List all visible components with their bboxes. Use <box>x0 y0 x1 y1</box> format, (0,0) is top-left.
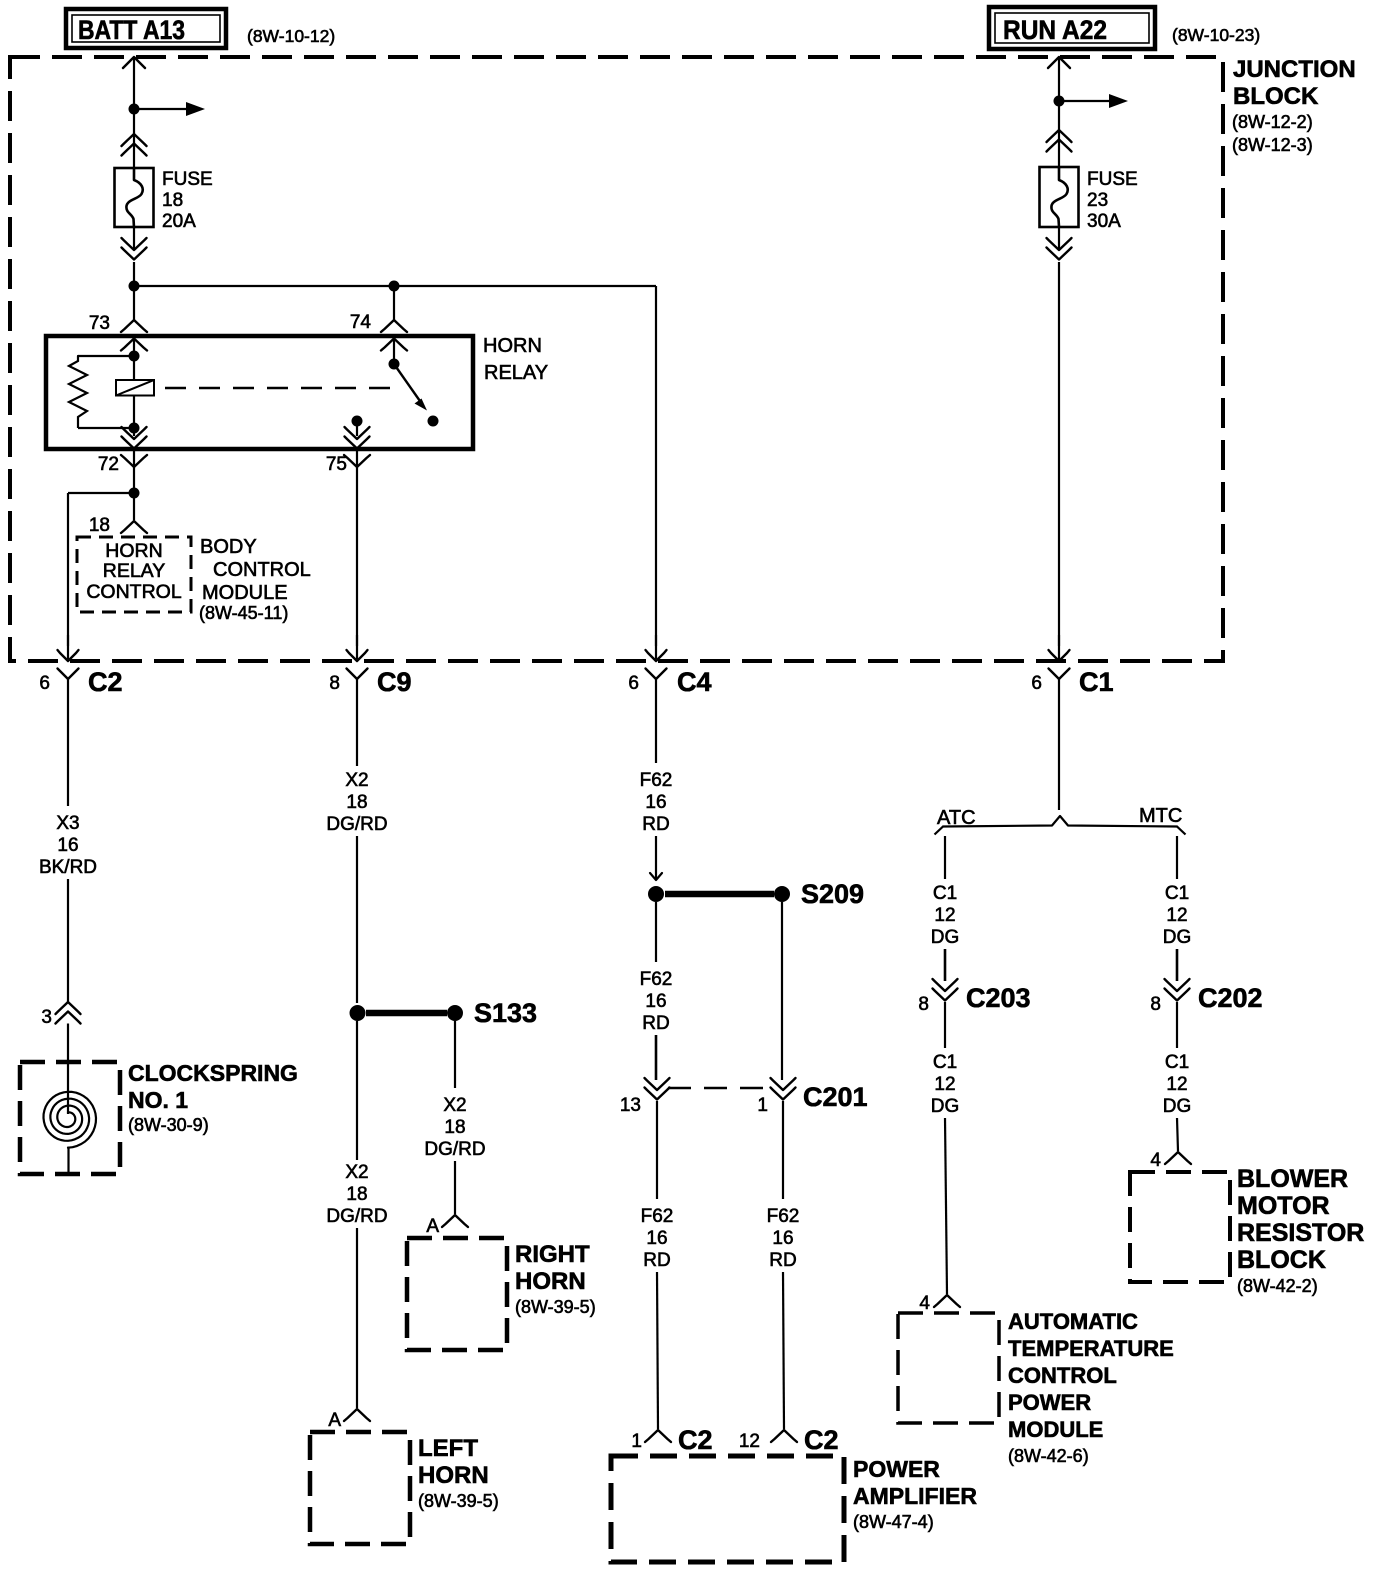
wire C201 pin1 down <box>782 1101 784 1199</box>
svg-text:1: 1 <box>631 1431 642 1452</box>
svg-text:20A: 20A <box>162 211 196 232</box>
wire S133 to label X2 (left horn run) <box>356 1021 358 1160</box>
wire S209 right leg down <box>781 902 783 1080</box>
svg-text:8: 8 <box>918 994 929 1015</box>
svg-text:75: 75 <box>326 454 347 475</box>
connector C2 pin 6 <box>67 635 69 659</box>
svg-text:BODY: BODY <box>200 536 257 558</box>
svg-text:HORN: HORN <box>418 1462 489 1489</box>
wire label to left horn pin A <box>356 1228 358 1408</box>
svg-text:12: 12 <box>934 1074 955 1095</box>
wire batt feed into junction block <box>133 57 135 169</box>
fuse 18 box <box>115 168 154 227</box>
svg-text:X2: X2 <box>345 770 368 791</box>
svg-text:C1: C1 <box>1165 883 1189 904</box>
connector C203 chevrons <box>933 979 958 991</box>
svg-text:X3: X3 <box>56 813 79 834</box>
connector chevrons relay pin 72 exit <box>122 427 147 439</box>
wire coil bottom to pin 72 <box>133 428 135 436</box>
svg-text:BLOCK: BLOCK <box>1237 1246 1326 1274</box>
svg-text:BK/RD: BK/RD <box>39 857 97 878</box>
svg-text:C1: C1 <box>1079 667 1114 697</box>
wire S209 left leg down <box>655 902 657 962</box>
svg-text:CONTROL: CONTROL <box>1008 1363 1117 1388</box>
svg-text:(8W-42-2): (8W-42-2) <box>1237 1276 1318 1296</box>
wire pin 72 to pin 18 <box>133 493 135 520</box>
svg-text:8: 8 <box>1150 994 1161 1015</box>
arrowhead into S209 <box>650 873 662 880</box>
svg-text:3: 3 <box>41 1007 52 1028</box>
node run feed tap <box>1054 96 1065 107</box>
wire C203 down <box>944 1002 946 1048</box>
wire clockspring exit <box>67 1147 69 1175</box>
wire relay coil bottom <box>133 396 135 429</box>
relay switch arm <box>394 364 421 403</box>
svg-text:DG/RD: DG/RD <box>424 1139 485 1160</box>
connector C202 chevrons <box>1165 979 1190 991</box>
connector chevrons below fuse 18 <box>122 238 147 250</box>
svg-text:18: 18 <box>444 1117 465 1138</box>
power amplifier box (dashed) <box>611 1456 844 1562</box>
wire MTC leg upper <box>1176 836 1178 879</box>
svg-text:F62: F62 <box>641 1206 674 1227</box>
svg-text:16: 16 <box>57 835 78 856</box>
wire pin 72 down <box>133 449 135 493</box>
connector chevrons relay pin 75 exit <box>345 427 370 439</box>
svg-text:(8W-47-4): (8W-47-4) <box>853 1512 934 1532</box>
svg-text:(8W-12-2): (8W-12-2) <box>1232 112 1313 132</box>
wire label to splice S209 <box>655 836 657 879</box>
svg-text:C202: C202 <box>1198 983 1263 1013</box>
node relay switch contact <box>428 416 439 427</box>
svg-text:4: 4 <box>919 1293 930 1314</box>
svg-text:HORN: HORN <box>483 335 542 357</box>
svg-text:73: 73 <box>89 313 110 334</box>
connector C9 pin 8 <box>356 635 358 659</box>
wire C201 pin13 down <box>656 1101 658 1199</box>
wire bus horizontal to C4 drop <box>134 285 656 287</box>
harness split bracket ATC/MTC <box>943 816 1177 827</box>
wire bcm branch to C2 <box>68 492 134 494</box>
svg-text:X2: X2 <box>443 1095 466 1116</box>
wire to blower resistor pin 4 <box>1177 1118 1178 1151</box>
svg-text:X2: X2 <box>345 1162 368 1183</box>
wire C2 to label X3 <box>67 685 69 806</box>
horn relay control box (dashed) <box>77 537 191 612</box>
svg-text:POWER: POWER <box>853 1456 940 1482</box>
svg-text:18: 18 <box>162 190 183 211</box>
svg-text:MODULE: MODULE <box>1008 1417 1103 1442</box>
wire label to right horn pin A <box>454 1161 456 1214</box>
svg-text:CONTROL: CONTROL <box>86 581 181 603</box>
wire label to pin 3 <box>67 879 69 1003</box>
svg-text:RD: RD <box>643 1250 670 1271</box>
svg-text:74: 74 <box>350 312 372 333</box>
power feed box BATT A13 <box>66 9 226 48</box>
wire ATC leg upper <box>944 836 946 879</box>
svg-text:NO. 1: NO. 1 <box>128 1087 188 1113</box>
ATC power module box (dashed) <box>898 1313 999 1423</box>
svg-text:S209: S209 <box>801 879 864 909</box>
wire pin 74 into relay <box>393 286 395 320</box>
svg-text:TEMPERATURE: TEMPERATURE <box>1008 1336 1174 1361</box>
svg-text:RESISTOR: RESISTOR <box>1237 1219 1364 1247</box>
svg-text:C2: C2 <box>804 1425 839 1455</box>
svg-text:FUSE: FUSE <box>162 169 213 190</box>
svg-text:6: 6 <box>39 673 50 694</box>
wire to amp pin 1 <box>657 1272 658 1429</box>
svg-text:C1: C1 <box>1165 1052 1189 1073</box>
wire to C202 <box>1176 949 1179 981</box>
svg-text:JUNCTION: JUNCTION <box>1233 56 1356 83</box>
svg-text:6: 6 <box>1031 673 1042 694</box>
wire fuse to bus <box>133 228 135 251</box>
connector chevrons run feed <box>1047 130 1072 142</box>
wire label to splice S133 <box>356 836 358 1003</box>
arrowhead up to RUN A22 <box>1048 57 1070 68</box>
svg-text:16: 16 <box>772 1228 793 1249</box>
svg-text:18: 18 <box>89 515 110 536</box>
svg-text:(8W-42-6): (8W-42-6) <box>1008 1446 1089 1466</box>
right horn box (dashed) <box>407 1238 507 1350</box>
svg-text:12: 12 <box>934 905 955 926</box>
pin 74 chevron inside relay <box>381 339 407 351</box>
clockspring no.1 box (dashed) <box>20 1062 120 1174</box>
svg-text:A: A <box>426 1216 439 1237</box>
wire bus to horn relay pin 73 <box>133 286 135 320</box>
svg-text:BLOCK: BLOCK <box>1233 83 1319 110</box>
node relay coil bottom <box>129 423 140 434</box>
splice S209 <box>648 886 664 902</box>
arrow other-circuits right (run) <box>1059 100 1110 102</box>
svg-text:72: 72 <box>98 454 119 475</box>
wire C202 down <box>1176 1002 1178 1048</box>
fuse 18 element <box>126 168 142 228</box>
wire common contact to pin 75 <box>356 421 358 436</box>
connector C4 pin 6 <box>655 635 657 659</box>
splice S133 <box>350 1005 366 1021</box>
node relay switch pivot <box>389 359 400 370</box>
wire to C201 pin 13 <box>655 1035 658 1080</box>
svg-text:S133: S133 <box>474 998 537 1028</box>
svg-text:MODULE: MODULE <box>202 582 288 604</box>
svg-text:1: 1 <box>757 1095 768 1116</box>
svg-text:12: 12 <box>1166 905 1187 926</box>
svg-text:C201: C201 <box>803 1082 868 1112</box>
wire to amp pin 12 <box>783 1272 784 1429</box>
svg-text:F62: F62 <box>640 770 673 791</box>
svg-text:F62: F62 <box>767 1206 800 1227</box>
junction block boundary (dashed) <box>10 57 1223 661</box>
svg-text:RD: RD <box>769 1250 796 1271</box>
wire C1 down to split <box>1058 685 1060 810</box>
node bcm branch <box>129 488 140 499</box>
svg-text:RUN A22: RUN A22 <box>1003 15 1107 45</box>
svg-text:ATC: ATC <box>937 807 976 829</box>
svg-text:18: 18 <box>346 792 367 813</box>
svg-text:AMPLIFIER: AMPLIFIER <box>853 1483 977 1509</box>
wire relay pin 75 to C9 <box>356 449 358 646</box>
wire run feed into junction block <box>1058 57 1060 169</box>
svg-text:MTC: MTC <box>1139 805 1182 827</box>
wire pin 3 to clockspring <box>67 1024 69 1115</box>
wire C4 down <box>655 685 657 763</box>
svg-text:BLOWER: BLOWER <box>1237 1165 1348 1193</box>
svg-text:(8W-45-11): (8W-45-11) <box>199 603 288 623</box>
svg-text:12: 12 <box>1166 1074 1187 1095</box>
svg-text:C2: C2 <box>88 667 123 697</box>
fuse 23 box <box>1040 167 1079 227</box>
wire C9 down <box>356 685 358 766</box>
relay coil symbol <box>116 380 154 396</box>
arrow other-circuits right (batt) <box>134 108 187 110</box>
svg-text:8: 8 <box>329 673 340 694</box>
svg-text:(8W-10-23): (8W-10-23) <box>1172 25 1260 45</box>
svg-text:(8W-30-9): (8W-30-9) <box>128 1115 209 1135</box>
svg-text:C203: C203 <box>966 983 1031 1013</box>
svg-text:RD: RD <box>642 814 669 835</box>
connector chevrons below fuse 23 <box>1047 238 1072 250</box>
blower motor resistor block box (dashed) <box>1130 1172 1230 1282</box>
svg-text:RELAY: RELAY <box>484 362 548 384</box>
node batt feed tap <box>129 104 140 115</box>
svg-text:16: 16 <box>646 1228 667 1249</box>
svg-text:C9: C9 <box>377 667 412 697</box>
svg-text:DG/RD: DG/RD <box>326 1206 387 1227</box>
wire fuse 23 to C1 <box>1058 227 1060 251</box>
svg-text:12: 12 <box>739 1431 760 1452</box>
svg-text:DG: DG <box>931 1096 960 1117</box>
svg-text:DG: DG <box>1163 927 1192 948</box>
connector C1 pin 6 <box>1058 635 1060 659</box>
wire relay coil top <box>133 339 135 381</box>
svg-text:RELAY: RELAY <box>103 560 166 582</box>
svg-text:16: 16 <box>645 792 666 813</box>
svg-text:C4: C4 <box>677 667 712 697</box>
fuse 23 element <box>1051 167 1067 227</box>
resistor horn relay <box>78 355 134 357</box>
connector C201 pin 1 chevrons <box>771 1078 796 1090</box>
svg-text:16: 16 <box>645 991 666 1012</box>
svg-text:DG: DG <box>931 927 960 948</box>
node bus to relay pin 74 <box>389 281 400 292</box>
svg-text:23: 23 <box>1087 190 1108 211</box>
connector chevrons batt feed <box>122 134 147 146</box>
connector C201 pin 13 chevrons <box>645 1078 670 1090</box>
svg-text:RIGHT: RIGHT <box>515 1241 590 1268</box>
wire to C203 <box>944 949 947 981</box>
connector C201 dashed link <box>668 1087 770 1089</box>
svg-text:POWER: POWER <box>1008 1390 1091 1415</box>
svg-text:AUTOMATIC: AUTOMATIC <box>1008 1309 1138 1334</box>
pin 73 chevron inside relay <box>121 339 147 351</box>
node relay common contact <box>352 416 363 427</box>
svg-text:C1: C1 <box>933 1052 957 1073</box>
svg-text:RD: RD <box>642 1013 669 1034</box>
svg-text:FUSE: FUSE <box>1087 169 1138 190</box>
svg-text:CLOCKSPRING: CLOCKSPRING <box>128 1060 298 1086</box>
svg-text:6: 6 <box>628 673 639 694</box>
arrowhead up to BATT A13 <box>123 57 145 68</box>
wire bus drop to C4 <box>655 286 657 646</box>
svg-text:CONTROL: CONTROL <box>213 559 311 581</box>
svg-text:A: A <box>328 1410 341 1431</box>
clockspring coil spiral <box>44 1092 97 1148</box>
svg-text:F62: F62 <box>640 969 673 990</box>
svg-text:C1: C1 <box>933 883 957 904</box>
svg-text:DG/RD: DG/RD <box>326 814 387 835</box>
relay actuation dashed link <box>165 387 401 389</box>
svg-text:(8W-12-3): (8W-12-3) <box>1232 135 1313 155</box>
node relay coil top <box>129 351 140 362</box>
wire to ATC module pin 4 <box>945 1118 947 1294</box>
wire S133 to label X2 (right horn run) <box>454 1021 456 1088</box>
svg-text:(8W-10-12): (8W-10-12) <box>247 26 335 46</box>
svg-text:MOTOR: MOTOR <box>1237 1192 1330 1220</box>
power feed box RUN A22 <box>989 7 1155 49</box>
svg-text:DG: DG <box>1163 1096 1192 1117</box>
svg-text:30A: 30A <box>1087 211 1121 232</box>
node bus junction <box>129 281 140 292</box>
horn relay box <box>46 336 473 449</box>
svg-text:(8W-39-5): (8W-39-5) <box>515 1297 596 1317</box>
svg-text:BATT A13: BATT A13 <box>78 15 185 45</box>
svg-text:(8W-39-5): (8W-39-5) <box>418 1491 499 1511</box>
svg-text:13: 13 <box>620 1095 641 1116</box>
svg-text:LEFT: LEFT <box>418 1435 478 1462</box>
svg-text:18: 18 <box>346 1184 367 1205</box>
svg-text:HORN: HORN <box>105 540 162 562</box>
svg-text:4: 4 <box>1150 1150 1161 1171</box>
svg-text:HORN: HORN <box>515 1268 586 1295</box>
svg-text:C2: C2 <box>678 1425 713 1455</box>
left horn box (dashed) <box>310 1432 410 1544</box>
